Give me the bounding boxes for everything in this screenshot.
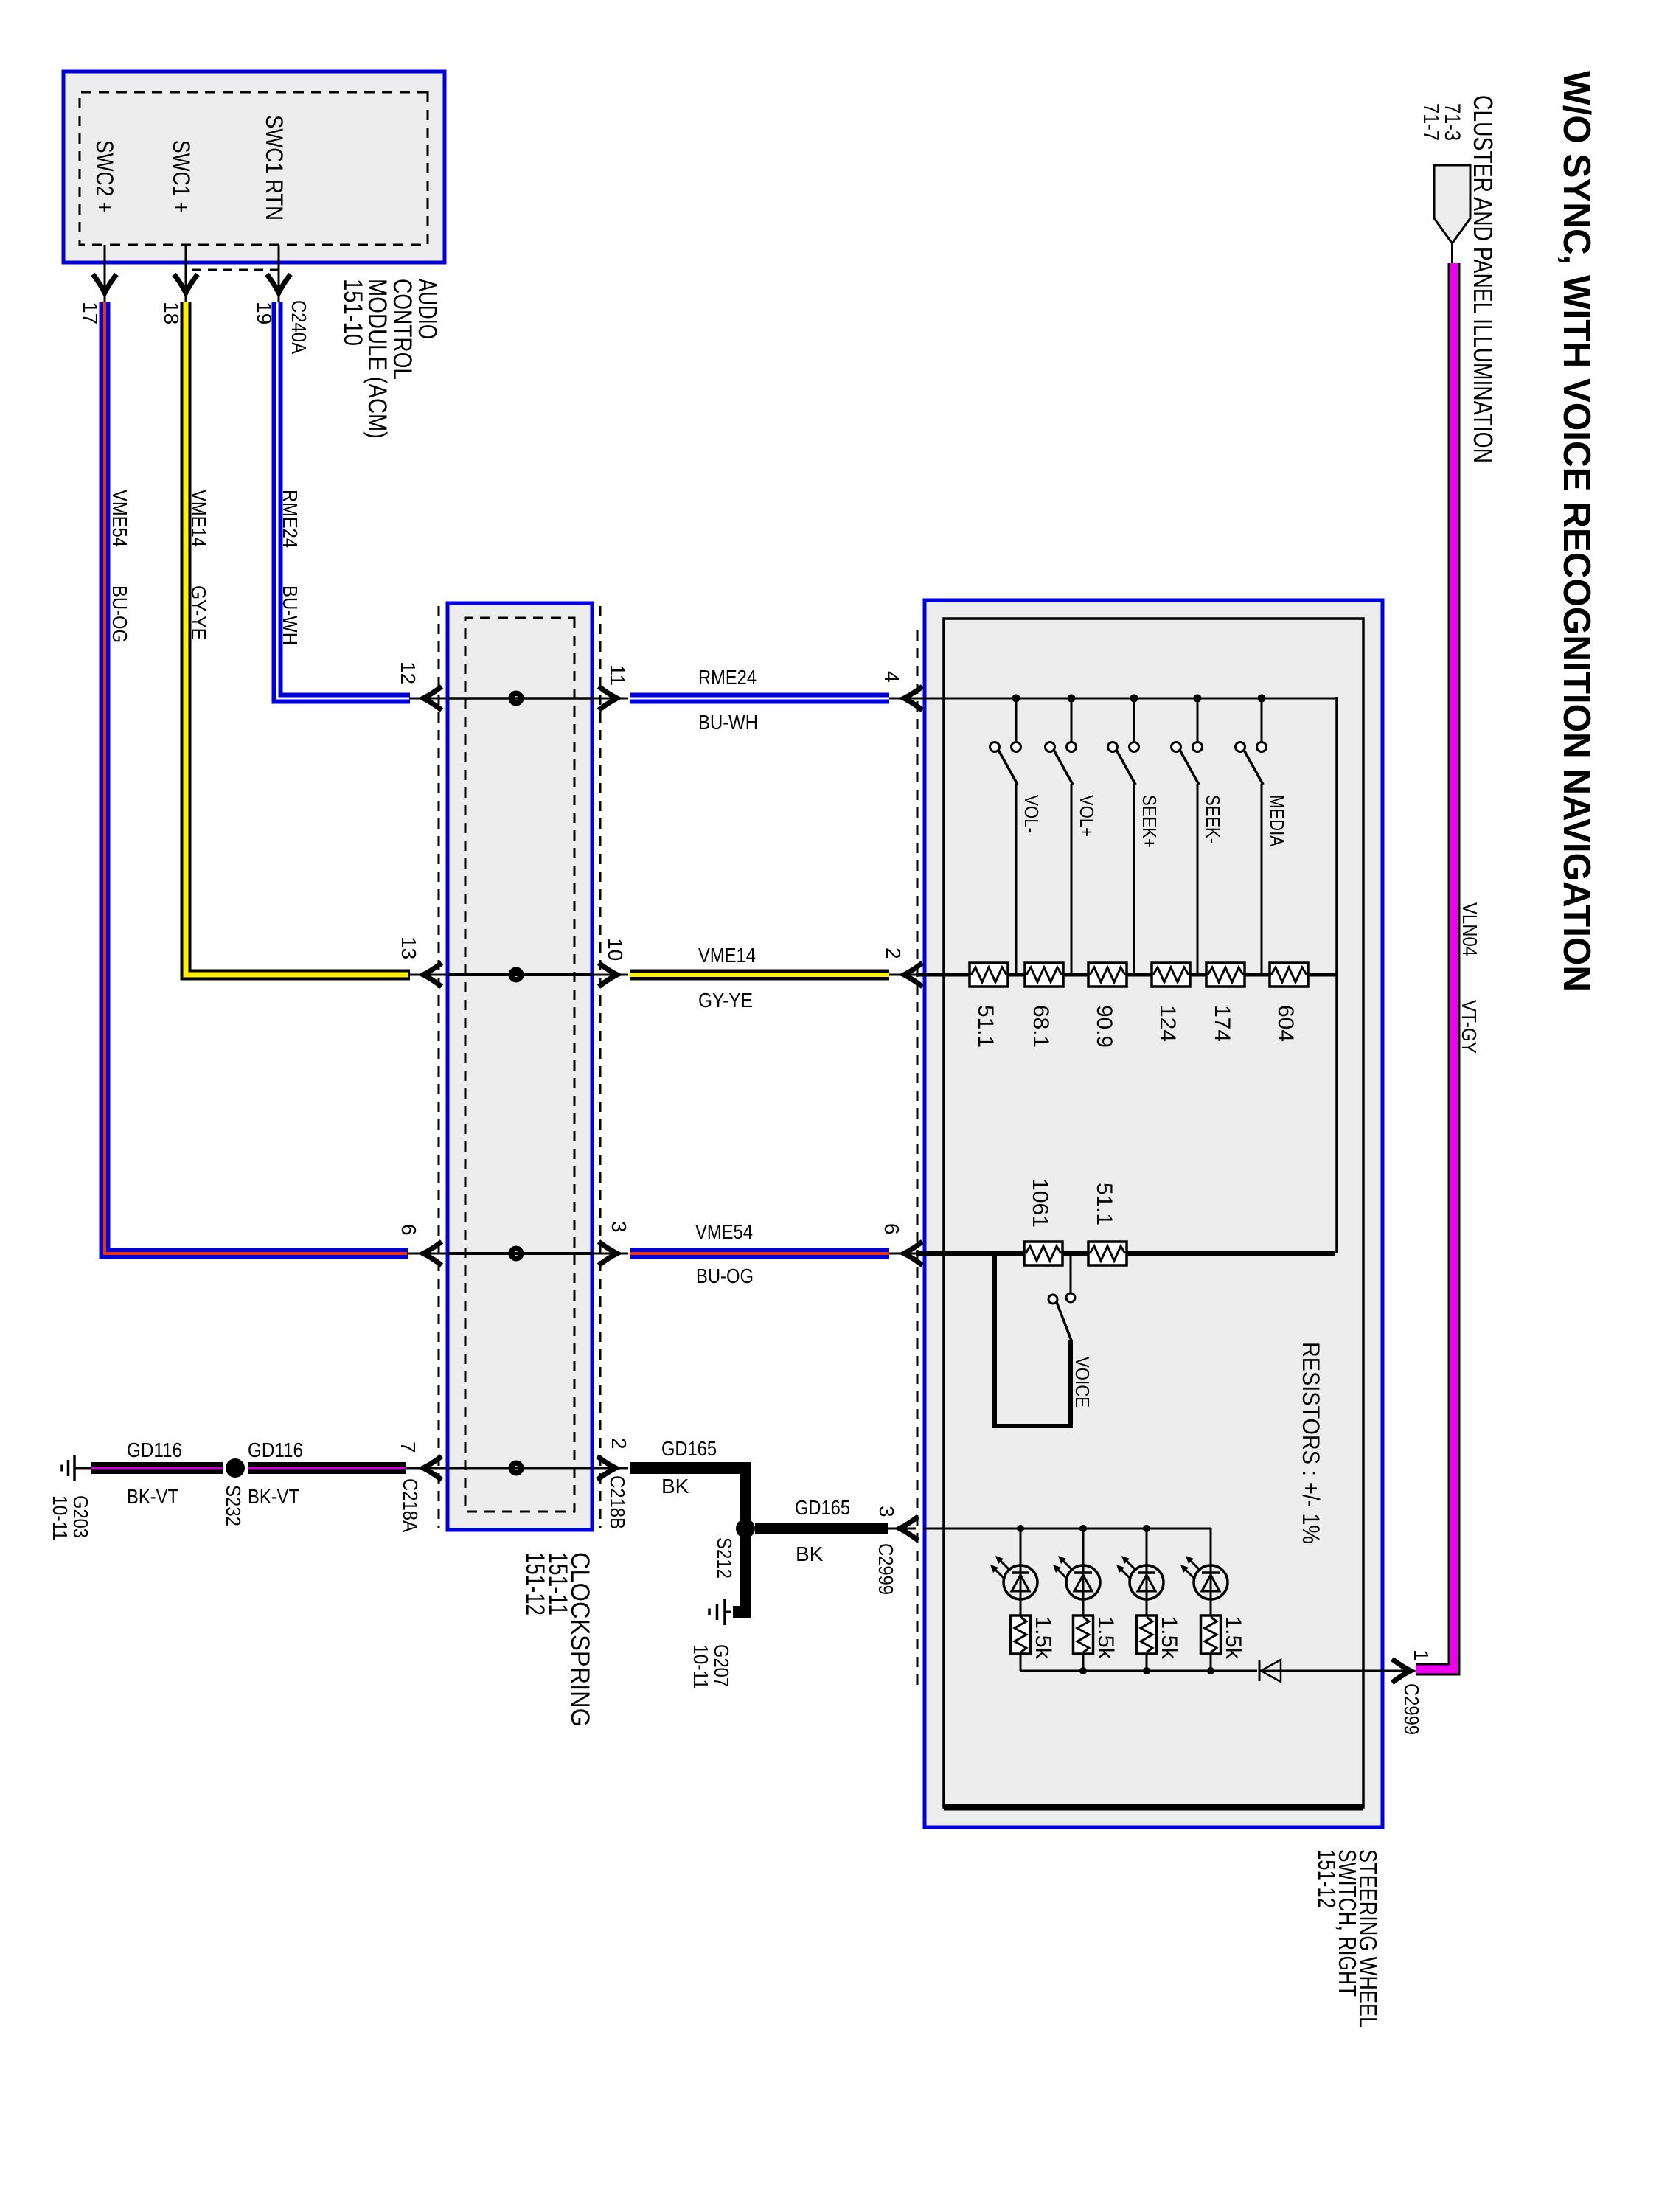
svg-text:68.1: 68.1 — [1029, 1005, 1053, 1048]
wire resistor LED2 to bus — [1082, 1654, 1085, 1671]
svg-text:AUDIO: AUDIO — [413, 279, 442, 339]
switch VOL+ wire from feed — [1071, 698, 1073, 742]
junction node on feed (SEEK+) — [1130, 695, 1138, 703]
svg-text:VOICE: VOICE — [1071, 1357, 1093, 1408]
svg-text:1: 1 — [1410, 1649, 1433, 1661]
LED feed wire from pin 3 — [923, 1528, 1211, 1530]
svg-text:71-3: 71-3 — [1440, 103, 1464, 141]
resistor ladder bus wire from pin 2 — [916, 973, 1337, 977]
svg-text:4: 4 — [880, 671, 903, 683]
ground G207 — [725, 1611, 731, 1613]
svg-text:71-7: 71-7 — [1419, 103, 1443, 141]
svg-text:1.5k: 1.5k — [1221, 1616, 1245, 1660]
switch SEEK- wire from feed — [1197, 698, 1199, 742]
switch SEEK+ fixed contact — [1130, 742, 1139, 752]
svg-text:BK-VT: BK-VT — [248, 1485, 299, 1508]
VME54 internal wire from pin 6 — [916, 1251, 1335, 1256]
switch VOL- second contact — [990, 742, 1000, 752]
svg-text:151-12: 151-12 — [521, 1552, 549, 1615]
svg-text:RESISTORS : +/- 1%: RESISTORS : +/- 1% — [1298, 1342, 1324, 1544]
svg-text:VME54: VME54 — [695, 1220, 753, 1243]
wire RME24 BU-WH clockspring to switch pin 4 — [630, 693, 889, 704]
VOICE switch blade — [1057, 1302, 1071, 1340]
svg-text:BU-OG: BU-OG — [696, 1265, 754, 1287]
resistor 1.5k (LED1) — [1011, 1615, 1031, 1654]
wire resistor LED4 to bus — [1210, 1654, 1212, 1671]
wire GD165 BK from clockspring pin 2 to splice S212 — [630, 1468, 745, 1612]
svg-text:BU-WH: BU-WH — [698, 711, 758, 734]
svg-text:90.9: 90.9 — [1092, 1005, 1116, 1048]
switch VOL+ wire to resistor bus — [1071, 784, 1073, 973]
svg-text:13: 13 — [397, 936, 420, 959]
svg-text:RME24: RME24 — [698, 666, 757, 689]
switch SEEK- blade — [1180, 750, 1199, 785]
wire VME14 through clockspring — [448, 973, 592, 976]
VOICE bypass wire — [995, 1253, 1071, 1426]
junction node LED bus — [1207, 1667, 1214, 1674]
junction node LED bus — [1143, 1667, 1150, 1674]
wire VME54 through clockspring — [448, 1252, 592, 1255]
LED3 branch wire — [1146, 1528, 1148, 1565]
clockspring dashed inner box — [465, 618, 574, 1512]
svg-text:SWC1 RTN: SWC1 RTN — [261, 115, 288, 220]
clockspring splice symbol row VME54 — [511, 1248, 521, 1259]
resistor 124 ohm — [1152, 963, 1190, 987]
clockspring pin 12 arrow — [423, 686, 442, 710]
svg-text:151-10: 151-10 — [338, 279, 367, 346]
switch MEDIA wire to resistor bus — [1261, 784, 1263, 973]
svg-text:BU-OG: BU-OG — [108, 585, 131, 643]
svg-text:CONTROL: CONTROL — [388, 279, 417, 380]
svg-text:124: 124 — [1155, 1005, 1180, 1042]
switch VOL- wire from feed — [1015, 698, 1018, 742]
clockspring splice symbol row VME14 — [511, 970, 521, 980]
svg-text:18: 18 — [160, 302, 183, 324]
svg-text:RME24: RME24 — [279, 490, 302, 548]
clockspring pin 11 arrow — [599, 686, 617, 710]
switch SEEK+ wire to resistor bus — [1133, 784, 1135, 973]
ACM pin 17 stub wire — [104, 245, 106, 302]
svg-text:SEEK+: SEEK+ — [1138, 795, 1161, 848]
switch SEEK+ second contact — [1108, 742, 1118, 752]
switch pin 4 arrow — [904, 686, 922, 710]
switch MEDIA blade — [1244, 750, 1263, 785]
switch SEEK+ blade — [1116, 750, 1135, 785]
splice S212 — [736, 1519, 755, 1538]
switch pin 3 arrow — [900, 1517, 918, 1540]
svg-text:BK: BK — [661, 1475, 689, 1498]
resistor 90.9 ohm — [1088, 963, 1127, 987]
module box: STEERING WHEEL SWITCH, RIGHT — [925, 600, 1382, 1827]
ACM pin 18 connector arrow — [174, 274, 198, 293]
junction node LED2 feed — [1079, 1525, 1087, 1532]
resistor 68.1 ohm — [1025, 963, 1063, 987]
svg-text:2: 2 — [882, 947, 905, 959]
svg-text:604: 604 — [1273, 1005, 1298, 1042]
clockspring pin 13 arrow — [423, 963, 442, 987]
svg-text:VLN04: VLN04 — [1458, 902, 1481, 956]
connector C218B dashed line (above clockspring) — [599, 606, 602, 1528]
switch VOL+ second contact — [1046, 742, 1055, 752]
svg-text:GY-YE: GY-YE — [698, 989, 753, 1012]
wire diode to C2999 pin 1 — [1259, 1670, 1413, 1672]
junction node LED3 feed — [1143, 1525, 1150, 1532]
thick right edge of inner outline box — [944, 1804, 1363, 1811]
svg-text:VME54: VME54 — [108, 490, 131, 547]
svg-text:BK: BK — [796, 1543, 824, 1565]
wire GD116 BK-VT upper segment — [248, 1462, 406, 1474]
svg-text:51.1: 51.1 — [973, 1005, 998, 1048]
wire RME24 BU-WH from ACM pin 19 to clockspring pin 12 — [277, 302, 410, 698]
wire stub clockspring pin 11 — [592, 698, 628, 700]
wire VME54 BU-OG clockspring to switch pin 6 — [630, 1248, 889, 1259]
clockspring pin 7 arrow — [423, 1456, 442, 1480]
switch SEEK- fixed contact — [1193, 742, 1203, 752]
clockspring pin 6 arrow — [423, 1242, 442, 1265]
svg-text:BU-WH: BU-WH — [279, 585, 302, 645]
ground G203 — [74, 1467, 91, 1470]
svg-text:1.5k: 1.5k — [1093, 1616, 1118, 1660]
wire RME24 through clockspring — [448, 697, 592, 700]
svg-text:6: 6 — [880, 1223, 903, 1235]
junction node LED bus — [1079, 1667, 1087, 1674]
switch pin 6 arrow — [904, 1242, 922, 1265]
wire VLN04 VT-GY (magenta) from pentagon to C2999 pin 1 — [1416, 263, 1454, 1669]
wire stub switch pin 4 — [889, 698, 923, 700]
svg-text:10-11: 10-11 — [49, 1495, 72, 1540]
wire stub clockspring pin 2 — [594, 1467, 628, 1470]
svg-text:VOL-: VOL- — [1020, 795, 1043, 833]
switch VOL- fixed contact — [1012, 742, 1021, 752]
junction node on feed (VOL+) — [1068, 695, 1076, 703]
junction node on feed (VOL-) — [1012, 695, 1020, 703]
VOICE switch fixed contact — [1066, 1293, 1075, 1302]
svg-text:2: 2 — [608, 1438, 630, 1450]
wire resistor LED3 to bus — [1146, 1654, 1148, 1671]
svg-text:10: 10 — [604, 938, 627, 961]
junction node on feed (SEEK-) — [1194, 695, 1202, 703]
svg-text:174: 174 — [1210, 1005, 1234, 1042]
clockspring box — [448, 603, 592, 1530]
resistor 51.1 ohm — [970, 963, 1008, 987]
svg-text:1.5k: 1.5k — [1157, 1616, 1181, 1660]
svg-text:7: 7 — [397, 1441, 420, 1453]
LED 3 (illumination) — [1130, 1565, 1164, 1599]
resistor 1061 ohm — [1024, 1242, 1062, 1265]
svg-text:SWC1 +: SWC1 + — [168, 140, 195, 213]
junction node on feed (MEDIA) — [1258, 695, 1266, 703]
switch MEDIA wire from feed — [1261, 698, 1263, 742]
ACM pin 17 connector arrow — [93, 274, 116, 293]
wire stub clockspring pin 10 — [592, 974, 628, 976]
clockspring pin 2 arrow — [597, 1456, 616, 1480]
svg-text:51.1: 51.1 — [1092, 1183, 1116, 1225]
VOICE switch second contact — [1048, 1295, 1057, 1304]
switch SEEK- second contact — [1172, 742, 1181, 752]
switch VOL+ fixed contact — [1067, 742, 1077, 752]
LED1 branch wire — [1020, 1528, 1022, 1565]
svg-text:GY-YE: GY-YE — [187, 585, 210, 640]
connector C240A dashed bracket at ACM pins 19/18 — [278, 245, 280, 270]
VOICE switch feed wire — [1070, 1253, 1072, 1293]
svg-text:1061: 1061 — [1028, 1178, 1052, 1228]
LED 1 (illumination) — [1004, 1565, 1037, 1599]
svg-text:SEEK-: SEEK- — [1202, 795, 1224, 844]
top rail wire — [1335, 697, 1338, 1253]
wire LED1 to resistor — [1020, 1599, 1022, 1615]
switch MEDIA fixed contact — [1257, 742, 1267, 752]
svg-text:C218A: C218A — [399, 1478, 422, 1532]
wire LED2 to resistor — [1082, 1599, 1085, 1615]
wire stub clockspring pin 6 — [408, 1253, 446, 1255]
svg-text:VOL+: VOL+ — [1076, 795, 1098, 837]
wire resistor LED1 to bus — [1020, 1654, 1022, 1671]
wire VME14 GY-YE clockspring to switch pin 2 — [630, 970, 889, 981]
wire stub switch pin 3 — [888, 1528, 916, 1530]
svg-text:3: 3 — [608, 1221, 630, 1233]
svg-text:S232: S232 — [222, 1485, 245, 1526]
resistor 604 ohm — [1270, 963, 1308, 987]
clockspring splice symbol row RME24 — [511, 693, 521, 703]
ACM pin 19 stub wire — [278, 245, 280, 302]
LED 4 (illumination) — [1194, 1565, 1228, 1599]
ACM pin 18 stub wire — [185, 245, 187, 302]
wire stub clockspring pin 13 — [410, 974, 446, 976]
svg-text:3: 3 — [875, 1506, 898, 1517]
svg-text:12: 12 — [397, 661, 420, 684]
wire stub clockspring pin 12 — [410, 698, 446, 700]
svg-text:S212: S212 — [713, 1537, 736, 1579]
inner outline box of steering wheel switch — [944, 619, 1363, 1807]
wire LED4 to resistor — [1210, 1599, 1212, 1615]
svg-text:W/O SYNC, WITH VOICE RECOGNITI: W/O SYNC, WITH VOICE RECOGNITION NAVIGAT… — [1555, 71, 1598, 992]
switch VOL+ blade — [1054, 750, 1073, 785]
clockspring pin 3 arrow — [599, 1242, 617, 1265]
svg-text:BK-VT: BK-VT — [127, 1485, 178, 1508]
switch common feed wire from pin 4 — [923, 698, 1337, 700]
LED 2 (illumination) — [1066, 1565, 1100, 1599]
svg-text:GD165: GD165 — [795, 1496, 850, 1519]
svg-text:C2999: C2999 — [874, 1543, 897, 1595]
switch MEDIA second contact — [1236, 742, 1245, 752]
svg-text:MEDIA: MEDIA — [1266, 795, 1288, 847]
off-page connector pentagon — [1434, 165, 1470, 243]
junction node LED1 feed — [1017, 1525, 1024, 1532]
svg-text:10-11: 10-11 — [689, 1644, 712, 1689]
splice S232 — [226, 1458, 245, 1478]
switch SEEK+ wire from feed — [1133, 698, 1135, 742]
ACM pin 19 connector arrow — [267, 274, 291, 293]
svg-text:VT-GY: VT-GY — [1458, 1000, 1481, 1054]
svg-text:VME14: VME14 — [698, 944, 756, 967]
wire stub switch pin 2 — [889, 974, 916, 976]
wire VME14 GY-YE from ACM pin 18 to clockspring pin 13 — [186, 302, 410, 975]
resistor 1.5k (LED2) — [1074, 1615, 1093, 1654]
wire GD165 BK from splice S212 to switch pin 3 — [755, 1523, 888, 1534]
LED4 branch wire — [1210, 1528, 1212, 1565]
wire stub clockspring pin 7 — [406, 1467, 446, 1470]
svg-text:GD116: GD116 — [127, 1439, 182, 1461]
svg-text:17: 17 — [79, 302, 102, 324]
wire stub clockspring pin 3 — [592, 1253, 628, 1255]
svg-text:C218B: C218B — [606, 1475, 629, 1529]
connector dashed box inside ACM — [80, 92, 428, 245]
LED return bus wire — [1020, 1670, 1257, 1672]
svg-text:6: 6 — [397, 1224, 420, 1236]
svg-text:C2999: C2999 — [1400, 1683, 1423, 1735]
C2999 pin 1 arrow — [1392, 1659, 1411, 1683]
wire GD116 BK-VT lower segment — [91, 1462, 223, 1474]
clockspring pin 10 arrow — [599, 963, 617, 987]
svg-text:CLUSTER AND PANEL ILLUMINATION: CLUSTER AND PANEL ILLUMINATION — [1468, 95, 1498, 463]
svg-text:GD116: GD116 — [248, 1439, 303, 1461]
svg-text:1.5k: 1.5k — [1031, 1616, 1055, 1660]
svg-text:G203: G203 — [69, 1495, 92, 1538]
module box: AUDIO CONTROL MODULE (ACM) — [63, 72, 445, 262]
wire stub switch pin 6 — [889, 1253, 916, 1255]
svg-text:C240A: C240A — [288, 300, 310, 354]
switch SEEK- wire to resistor bus — [1197, 784, 1199, 973]
resistor 1.5k (LED4) — [1201, 1615, 1221, 1654]
wire VME54 BU-OG from ACM pin 17 to clockspring pin 6 — [105, 302, 408, 1253]
resistor 51.1 ohm (voice) — [1088, 1242, 1127, 1265]
resistor 174 ohm — [1206, 963, 1245, 987]
switch VOL- wire to resistor bus — [1015, 784, 1018, 973]
wire GD165 drop to ground G207 — [733, 1606, 751, 1618]
svg-text:151-12: 151-12 — [1313, 1849, 1340, 1908]
LED2 branch wire — [1082, 1528, 1085, 1565]
switch VOL- blade — [998, 750, 1018, 785]
clockspring splice symbol row GD116 — [511, 1463, 521, 1473]
svg-text:G207: G207 — [710, 1644, 733, 1687]
wire GD116 through clockspring — [448, 1467, 592, 1470]
svg-text:VME14: VME14 — [187, 490, 210, 547]
resistor 1.5k (LED3) — [1137, 1615, 1157, 1654]
switch pin 2 arrow — [904, 963, 922, 987]
wire LED3 to resistor — [1146, 1599, 1148, 1615]
svg-text:GD165: GD165 — [661, 1437, 717, 1460]
connector C218A dashed line (below clockspring) — [438, 606, 440, 1528]
connector C2999 dashed line (below switch box) — [917, 630, 919, 1688]
diode (illumination feed) — [1261, 1660, 1281, 1682]
svg-text:SWC2 +: SWC2 + — [91, 140, 118, 213]
svg-text:11: 11 — [606, 664, 629, 686]
